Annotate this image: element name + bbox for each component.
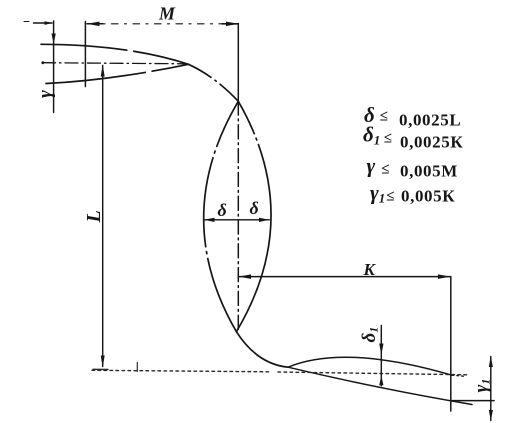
lower blade arc dotted continuation <box>452 375 466 376</box>
formula delta1 <= 0,0025K <box>363 123 463 152</box>
dimension line L (x=102.7) <box>101 65 105 368</box>
small top-left arrow <box>24 21 53 25</box>
formula gamma1 <= 0,005K <box>370 181 455 206</box>
svg-text:γ: γ <box>35 90 56 98</box>
s-curve from blade tip to lens top <box>189 64 239 101</box>
dimension line K (y=276.6) <box>239 274 451 279</box>
svg-text:0,0025К: 0,0025К <box>400 133 463 152</box>
svg-text:≤: ≤ <box>384 131 392 147</box>
datum dotted line <box>92 363 468 375</box>
svg-text:K: K <box>363 260 377 279</box>
blade top edge <box>41 44 189 64</box>
lower blade upper arc <box>288 357 452 375</box>
svg-text:≤: ≤ <box>386 189 394 205</box>
delta1 dimension line <box>379 326 383 386</box>
lens axis dash-dot (x=238.3) <box>237 101 239 332</box>
svg-text:≤: ≤ <box>381 162 389 178</box>
dimension line M <box>87 22 239 27</box>
svg-text:M: M <box>158 4 176 24</box>
svg-text:0,0025L: 0,0025L <box>399 111 461 130</box>
blade axis dash-dot <box>41 61 186 64</box>
svg-text:δ: δ <box>250 198 259 218</box>
formula gamma <= 0,005M <box>367 154 458 181</box>
gamma dimension line (x=53.6) <box>53 21 55 113</box>
svg-text:≤: ≤ <box>380 109 388 125</box>
svg-text:δ: δ <box>218 200 227 220</box>
formula delta <= 0,0025L <box>364 103 461 130</box>
formulas <box>363 103 463 206</box>
lens left arc <box>204 101 239 331</box>
gamma arrowhead down <box>52 34 56 45</box>
gamma1 extension horizontal <box>452 400 494 402</box>
right extension line (x=450.8) <box>450 277 452 411</box>
svg-text:0,005К: 0,005К <box>401 187 455 206</box>
s-curve from lens bottom to lower blade point <box>236 332 288 368</box>
lower blade bottom edge <box>288 367 472 404</box>
extension line left (x=85.5) <box>84 22 86 87</box>
center extension line (x=238.3) solid upper part <box>237 24 239 102</box>
delta dimension line in lens <box>204 218 270 222</box>
lens right arc <box>236 101 271 331</box>
svg-text:γ: γ <box>367 154 376 178</box>
svg-text:L: L <box>83 210 105 223</box>
svg-text:0,005М: 0,005М <box>400 162 458 181</box>
gamma1 dimension line <box>489 356 493 421</box>
blade bottom edge <box>46 64 189 83</box>
